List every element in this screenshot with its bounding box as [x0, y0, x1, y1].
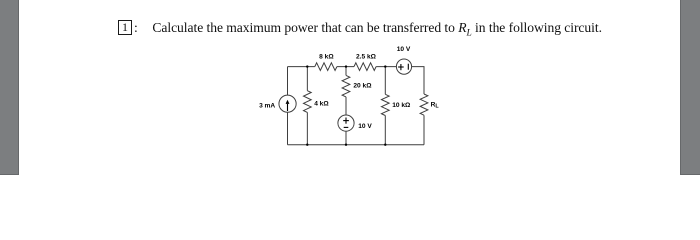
voltage source V1 10V circle [396, 59, 411, 74]
node dot top C [384, 65, 386, 67]
wire: bottom rail [288, 144, 425, 146]
wire: 20k branch top [345, 67, 347, 76]
wire: top rail between 2.5k and V source [376, 66, 396, 68]
wire: top rail between 8k and 2.5k [337, 66, 354, 68]
right grey band [680, 0, 700, 175]
resistor R 2.5k zigzag [354, 63, 376, 71]
svg-text:8 kΩ: 8 kΩ [319, 54, 334, 61]
voltage source V2 10V circle [338, 115, 354, 131]
resistor RL zigzag [420, 94, 428, 115]
resistor R 4k zigzag [304, 91, 312, 113]
svg-text:10 V: 10 V [397, 46, 411, 53]
wire: 20k to V2 [345, 97, 347, 115]
svg-text:3 mA: 3 mA [259, 102, 275, 109]
wire: RL to bottom rail [423, 115, 425, 145]
node dot bottom A [306, 144, 308, 146]
svg-text:2.5 kΩ: 2.5 kΩ [356, 54, 377, 61]
problem number box [118, 20, 132, 35]
node dot top B [345, 65, 347, 67]
V2 minus sign [344, 126, 349, 128]
resistor R 8k zigzag [315, 63, 337, 71]
wire: 10k branch bottom [384, 116, 386, 145]
wire: left vertical above current source [287, 67, 289, 96]
node dot top A [306, 65, 308, 67]
V2 plus sign [343, 120, 349, 122]
wire: top rail right of V1 to corner, down to RL [412, 67, 424, 94]
node dot bottom C [384, 144, 386, 146]
wire: 10k branch top [384, 67, 386, 95]
wire: 4k branch top [306, 67, 308, 91]
current source I1 3mA circle [279, 95, 296, 112]
wire: V2 to bottom rail [345, 131, 347, 145]
colon [134, 20, 138, 36]
wire: left vertical below current source [287, 112, 289, 144]
wire: 4k branch bottom [306, 112, 308, 144]
left grey band [0, 0, 19, 175]
resistor R 20k zigzag [342, 75, 350, 97]
node dot bottom B [345, 144, 347, 146]
wire: top rail left segment [288, 66, 315, 68]
title text [152, 20, 602, 39]
svg-text:10 kΩ: 10 kΩ [392, 102, 411, 109]
svg-text:10 V: 10 V [358, 123, 372, 130]
V1 plus sign [398, 66, 404, 68]
svg-text:RL: RL [431, 101, 440, 109]
svg-text:4 kΩ: 4 kΩ [314, 101, 329, 108]
resistor R 10k zigzag [381, 94, 389, 115]
svg-text:20 kΩ: 20 kΩ [353, 83, 372, 90]
V1 bar [407, 64, 409, 70]
current source arrow [287, 104, 289, 111]
